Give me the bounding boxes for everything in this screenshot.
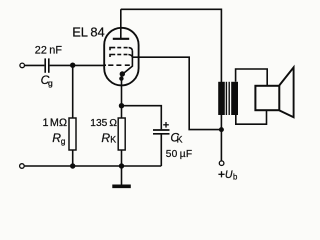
wire secondary top to speaker [236,69,268,85]
capacitor Cg plates [45,58,49,72]
speaker horn [279,67,293,117]
wire top rail to transformer [121,9,222,82]
plus sign CK [163,122,169,128]
grid g1 (control) dashed [104,64,129,66]
transformer primary lead down [220,115,222,130]
node RK/rail [119,163,124,168]
svg-text:K: K [110,134,116,144]
wire input to capacitor Cg [25,64,45,66]
wire Cg to grid node [50,64,104,66]
svg-text:g: g [48,78,53,88]
svg-text:135 Ω: 135 Ω [90,118,117,129]
svg-text:g: g [61,136,66,146]
svg-text:U: U [225,169,233,181]
node +Ub junction [219,127,224,132]
resistor Rg [69,118,76,150]
grid g3 (suppressor) dashed [110,48,132,51]
wire CK to rail [160,135,162,167]
ground terminal (input return) [20,164,25,169]
wire g2 screen to supply rail [132,57,219,129]
terminal +Ub [219,161,224,166]
wire Rg to ground rail [72,150,74,166]
anode plate [113,38,129,40]
svg-text:R: R [101,131,110,145]
input terminal (signal) [20,63,25,68]
node cathode [119,103,124,108]
speaker box [255,86,279,110]
svg-text:50 µF: 50 µF [166,149,192,160]
svg-text:1 MΩ: 1 MΩ [43,117,68,129]
wire cathode node to CK [122,106,162,130]
wire RK to rail [121,150,123,166]
capacitor CK plates [153,130,170,134]
cathode dot 2 [119,76,123,80]
anode lead up [120,9,122,39]
wire secondary bottom to speaker [236,111,267,124]
wire cathode to RK [121,106,123,118]
node Rg/rail [70,163,75,168]
tube EL84 envelope [104,28,138,86]
wire junction to +Ub terminal [220,130,222,161]
resistor RK [118,118,125,150]
cathode lead down [121,74,123,106]
label +Ub [218,169,238,182]
svg-text:22 nF: 22 nF [35,45,63,57]
g3 internal connection to cathode [123,51,132,74]
cathode dot [120,71,125,76]
transformer T1 secondary winding [231,82,238,115]
svg-text:b: b [233,173,238,182]
transformer core [226,82,229,115]
svg-text:EL 84: EL 84 [72,24,104,39]
svg-text:K: K [177,134,183,144]
grid g2 (screen) dashed [110,55,132,58]
wire bottom rail [24,165,161,167]
node grid junction [70,62,75,67]
ground [112,185,131,189]
transformer T1 primary winding [218,82,225,115]
wire to ground symbol [121,166,123,185]
wire junction down to Rg [72,65,74,118]
